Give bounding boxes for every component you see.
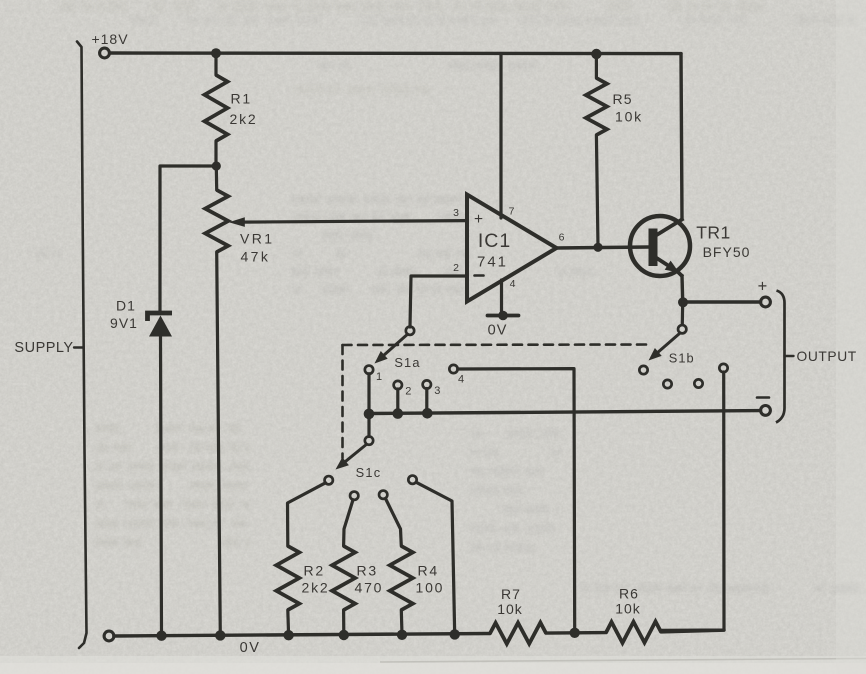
- svg-text:TR1: TR1: [696, 223, 731, 243]
- contact S1a-4: [449, 365, 457, 373]
- pin number 6: [559, 232, 565, 244]
- wire pin4 ground lead: [500, 280, 503, 314]
- svg-text:3: 3: [434, 385, 440, 397]
- pin number 2: [453, 262, 459, 274]
- svg-text:SUPPLY: SUPPLY: [14, 340, 73, 356]
- resistor R3: [332, 546, 355, 610]
- svg-text:+18V: +18V: [91, 31, 128, 47]
- output bracket: [776, 291, 794, 423]
- svg-text:47k: 47k: [241, 249, 271, 265]
- svg-text:0V: 0V: [240, 640, 261, 656]
- svg-text:VR1: VR1: [240, 231, 274, 247]
- svg-text:3: 3: [453, 207, 459, 219]
- ground 0V symbol: [488, 311, 519, 321]
- resistor R7: [490, 623, 546, 644]
- svg-text:R3: R3: [357, 563, 379, 579]
- wire S1c-3 to R4: [386, 499, 402, 547]
- wire S1a-2 stub: [396, 389, 399, 413]
- switch S1c wiper: [336, 436, 374, 469]
- contact S1b-3: [694, 379, 702, 387]
- wiper arrow VR1: [229, 217, 466, 227]
- junction top of R5: [591, 49, 601, 59]
- wire to D1 branch: [160, 166, 216, 311]
- svg-text:R6: R6: [619, 586, 639, 602]
- diode D1 (zener 9V1): [148, 313, 173, 337]
- pin number 3: [453, 207, 459, 219]
- contact S1b-1: [639, 366, 647, 374]
- wire to + output: [683, 300, 761, 303]
- wire S1c-2 to R3: [344, 500, 353, 546]
- junction emitter/output: [678, 297, 688, 307]
- pin label 1: [376, 371, 382, 383]
- junction R7/R6: [570, 628, 580, 638]
- svg-text:470: 470: [355, 580, 384, 596]
- svg-text:R2: R2: [304, 563, 326, 579]
- wire VR1 top lead: [215, 166, 219, 190]
- wire pin7 supply: [499, 54, 502, 218]
- junction R4/0V: [397, 630, 407, 640]
- supply bracket: [77, 42, 87, 649]
- label S1b: [669, 351, 695, 366]
- contact S1c-4: [408, 476, 416, 484]
- svg-text:S1b: S1b: [669, 351, 695, 366]
- wire top rail: [110, 51, 681, 55]
- wire S1a-4 to R7/R6 node: [458, 369, 575, 632]
- wire VR1 bottom lead: [217, 252, 221, 636]
- wire R4 bottom lead: [400, 610, 404, 635]
- resistor R1: [205, 75, 228, 141]
- svg-text:R4: R4: [418, 563, 440, 579]
- svg-text:6: 6: [559, 232, 565, 244]
- svg-text:OUTPUT: OUTPUT: [797, 349, 857, 364]
- wire S1c-1 to R2: [288, 483, 326, 546]
- label R6 10k: [615, 586, 641, 617]
- label D1 9V1: [110, 298, 138, 332]
- svg-text:9V1: 9V1: [110, 315, 138, 331]
- label S1c: [356, 465, 382, 480]
- wire to S1b wiper: [681, 302, 685, 324]
- contact S1a-1: [365, 366, 373, 374]
- resistor R2: [276, 546, 299, 610]
- label TR1: [696, 223, 731, 243]
- svg-text:R1: R1: [231, 91, 253, 107]
- label R7 10k: [497, 586, 523, 617]
- svg-text:7: 7: [509, 206, 515, 218]
- label BFY50: [703, 244, 751, 260]
- junction D1/0V: [156, 631, 166, 641]
- svg-text:0V: 0V: [488, 323, 508, 339]
- svg-text:10k: 10k: [497, 601, 523, 617]
- label IC1: [478, 230, 511, 252]
- svg-text:1: 1: [376, 371, 382, 383]
- label + (output): [758, 278, 768, 296]
- label R4 100: [416, 563, 445, 596]
- svg-text:2k2: 2k2: [302, 580, 330, 596]
- junction R2/0V: [283, 630, 293, 640]
- wire R1 bottom lead: [214, 141, 217, 166]
- op-amp IC1 741: [467, 195, 557, 302]
- label +18V: [91, 31, 128, 47]
- contact S1c-2: [350, 492, 358, 500]
- wire pin2 input: [410, 276, 467, 327]
- svg-text:BFY50: BFY50: [703, 244, 751, 260]
- resistor R6: [606, 622, 661, 643]
- plus input mark: [474, 211, 483, 228]
- junction S1c4/0V: [450, 629, 460, 639]
- pin label 3: [434, 385, 440, 397]
- switch S1b wiper: [649, 325, 687, 360]
- wire bus to S1c wiper: [367, 414, 370, 437]
- wire R6 to right corner: [661, 630, 724, 632]
- label S1a: [394, 355, 420, 370]
- junction bus 3: [422, 408, 433, 419]
- resistor R4: [390, 546, 413, 610]
- junction R1/VR1/D1: [212, 161, 221, 170]
- wire D1 to 0V rail: [161, 336, 162, 636]
- wire R7 to R6: [546, 631, 606, 635]
- junction VR1/0V: [215, 630, 225, 640]
- label R1 2k2: [230, 91, 258, 128]
- label VR1 47k: [240, 231, 274, 265]
- svg-text:+: +: [474, 211, 483, 228]
- wire op-amp output: [556, 247, 649, 248]
- pin label 4: [458, 374, 464, 386]
- svg-text:S1c: S1c: [356, 465, 382, 480]
- wire S1c-4 to 0V rail: [416, 482, 455, 634]
- label 0V rail: [240, 640, 261, 656]
- svg-text:IC1: IC1: [478, 230, 511, 252]
- junction top of R1: [211, 48, 221, 58]
- label 0V (ground): [488, 323, 508, 339]
- terminal 0V: [104, 631, 114, 641]
- terminal output −: [761, 406, 771, 416]
- potentiometer VR1: [205, 190, 228, 252]
- label R5 10k: [613, 91, 643, 125]
- junction R5/base: [593, 243, 602, 252]
- svg-text:2k2: 2k2: [230, 111, 258, 127]
- label R3 470: [355, 563, 384, 596]
- contact S1b-4: [719, 364, 727, 372]
- pin number 4: [510, 278, 516, 290]
- terminal +18V: [100, 48, 110, 58]
- contact S1a-3: [423, 380, 431, 388]
- wire collector from rail: [681, 54, 682, 219]
- terminal output +: [761, 297, 771, 307]
- svg-text:2: 2: [405, 386, 411, 398]
- svg-text:+: +: [758, 278, 768, 296]
- wire R5 bottom lead: [596, 135, 598, 247]
- wire S1a-3 stub: [425, 389, 428, 414]
- contact S1b-2: [663, 380, 671, 388]
- wire S1b-4 down right side: [661, 372, 724, 630]
- contact S1a-2: [394, 381, 402, 389]
- svg-text:4: 4: [458, 374, 464, 386]
- svg-text:R7: R7: [501, 586, 521, 602]
- wire S1a-1 to bus: [367, 374, 370, 414]
- svg-text:S1a: S1a: [394, 355, 420, 370]
- label − (output): [757, 396, 769, 399]
- wire 0V rail: [114, 634, 490, 637]
- transistor TR1 BFY50: [630, 216, 690, 277]
- svg-text:R5: R5: [613, 91, 633, 107]
- contact S1c-3: [379, 491, 387, 499]
- wire emitter down: [680, 276, 684, 303]
- label SUPPLY: [14, 340, 83, 356]
- svg-text:10k: 10k: [615, 601, 641, 617]
- switch S1a wiper arm: [375, 335, 408, 364]
- pin number 7: [509, 206, 515, 218]
- minus input mark: [475, 274, 484, 277]
- svg-text:741: 741: [477, 254, 508, 271]
- label OUTPUT: [797, 349, 857, 364]
- mechanical link dashed: [343, 345, 651, 459]
- svg-text:2: 2: [453, 262, 459, 274]
- wire selector bus: [369, 411, 761, 414]
- junction bus 2: [393, 408, 404, 419]
- label R2 2k2: [302, 563, 330, 596]
- svg-text:D1: D1: [116, 298, 136, 314]
- wire pin2 to S1a wiper: [406, 327, 414, 335]
- resistor R5: [586, 78, 607, 135]
- label 741: [477, 254, 508, 271]
- junction bus 1: [364, 409, 375, 420]
- svg-text:4: 4: [510, 278, 516, 290]
- wire R5 top lead: [595, 54, 598, 79]
- svg-text:100: 100: [416, 580, 445, 596]
- wire R2 bottom lead: [286, 610, 290, 635]
- wire R3 bottom lead: [342, 610, 345, 635]
- junction R3/0V: [339, 630, 349, 640]
- contact S1c-1: [325, 476, 333, 484]
- wire R1 top lead: [214, 53, 217, 75]
- pin label 2: [405, 386, 411, 398]
- svg-text:10k: 10k: [615, 109, 643, 125]
